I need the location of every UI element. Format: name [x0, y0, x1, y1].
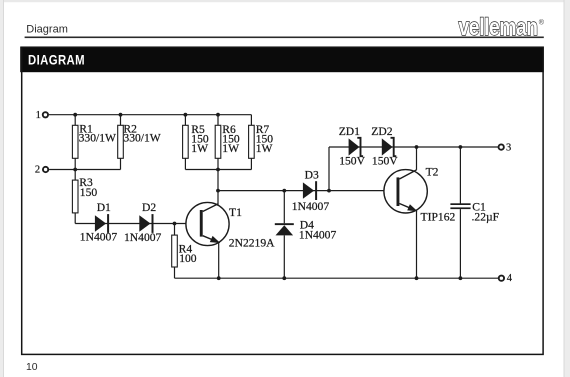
svg-text:1N4007: 1N4007: [292, 200, 330, 213]
svg-text:330/1W: 330/1W: [79, 132, 116, 145]
svg-text:Diagram: Diagram: [26, 24, 68, 36]
svg-text:1: 1: [36, 110, 41, 121]
svg-text:150V: 150V: [372, 155, 398, 168]
svg-text:150V: 150V: [339, 155, 365, 168]
svg-text:1W: 1W: [191, 142, 208, 155]
svg-text:D3: D3: [305, 169, 319, 182]
svg-text:1N4007: 1N4007: [80, 231, 118, 244]
svg-text:1N4007: 1N4007: [124, 231, 162, 244]
svg-text:1N4007: 1N4007: [299, 229, 337, 242]
svg-text:2: 2: [35, 165, 40, 176]
svg-text:4: 4: [507, 273, 513, 284]
svg-text:100: 100: [179, 252, 197, 265]
svg-text:2N2219A: 2N2219A: [229, 237, 275, 250]
svg-text:T2: T2: [426, 165, 439, 178]
svg-text:1W: 1W: [256, 142, 273, 155]
svg-text:10: 10: [26, 362, 38, 373]
svg-text:ZD1: ZD1: [339, 125, 360, 138]
svg-text:T1: T1: [229, 206, 242, 219]
svg-text:®: ®: [539, 19, 545, 27]
svg-text:DIAGRAM: DIAGRAM: [28, 51, 85, 68]
svg-text:330/1W: 330/1W: [123, 132, 160, 145]
svg-text:D1: D1: [97, 201, 111, 214]
svg-text:150: 150: [80, 186, 98, 199]
svg-text:TIP162: TIP162: [421, 210, 456, 223]
svg-text:1W: 1W: [222, 142, 239, 155]
svg-text:ZD2: ZD2: [371, 125, 392, 138]
svg-text:3: 3: [506, 143, 511, 154]
svg-text:D2: D2: [142, 201, 156, 214]
svg-text:.22µF: .22µF: [472, 211, 500, 224]
svg-text:velleman: velleman: [459, 13, 538, 41]
